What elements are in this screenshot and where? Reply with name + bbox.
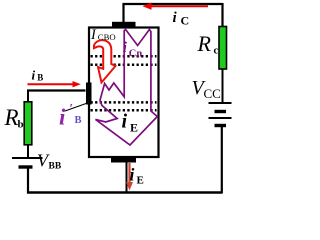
svg-text:Cn: Cn (129, 49, 143, 60)
svg-text:c: c (214, 46, 219, 57)
wire bottom (27, 191, 222, 193)
svg-text:B: B (37, 73, 43, 83)
svg-text:i: i (32, 68, 36, 83)
arrow iC (red, pointing left) (143, 3, 209, 10)
battery VBB (12, 158, 43, 167)
leader line to i'B label (65, 97, 106, 112)
arrow iE (red, pointing down) (126, 163, 133, 191)
svg-text:B: B (75, 115, 82, 126)
contact base (left bar) (86, 83, 92, 105)
junction dotted line 1 (collector junction upper) (91, 55, 157, 58)
svg-text:CBO: CBO (98, 32, 116, 42)
arrow iB (red, pointing right) (28, 81, 81, 87)
purple current arrow composite (iCn channel + iE big arrow + i'B branch) (96, 30, 158, 146)
svg-text:b: b (18, 119, 24, 131)
contact collector (top bar) (112, 22, 136, 27)
junction dotted line 2 (collector junction lower) (91, 64, 157, 67)
junction dotted line 3 (emitter junction upper) (91, 101, 157, 104)
svg-text:BB: BB (49, 162, 62, 172)
svg-text:C: C (181, 14, 190, 28)
wire emitter down (126, 162, 128, 193)
svg-text:i: i (122, 111, 128, 133)
svg-text:R: R (4, 105, 19, 130)
svg-text:i: i (130, 165, 135, 185)
svg-text:′: ′ (70, 101, 74, 116)
wire battery to bottom (221, 126, 223, 194)
junction dotted line 4 (emitter junction lower) (91, 109, 157, 112)
svg-text:E: E (137, 175, 144, 187)
wire base horizontal (27, 89, 86, 91)
svg-text:R: R (197, 31, 212, 56)
svg-text:CC: CC (204, 86, 221, 101)
red ICBO arrow (94, 40, 116, 82)
resistor Rc (219, 27, 227, 70)
svg-text:i: i (59, 105, 66, 130)
wire right rail upper (221, 3, 223, 28)
wire Vbb to Rb (27, 145, 29, 158)
resistor Rb (24, 102, 32, 145)
wire left rail lower (27, 167, 29, 194)
svg-text:E: E (130, 120, 138, 134)
wire collector stub (122, 3, 124, 23)
contact emitter (bottom bar) (111, 158, 136, 163)
battery VCC (209, 103, 232, 126)
wire top (collector to Rc) (123, 3, 223, 5)
wire Rc to battery (222, 68, 224, 104)
wire Rb stub up (27, 90, 29, 103)
transistor body box (89, 28, 159, 158)
